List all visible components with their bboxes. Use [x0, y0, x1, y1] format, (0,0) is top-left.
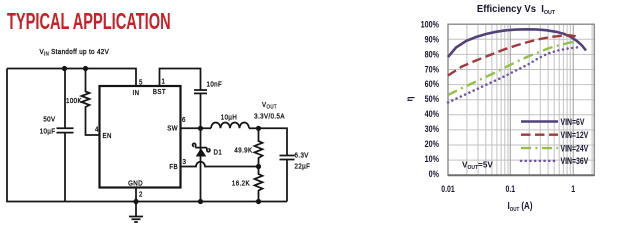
svg-text:40%: 40% [425, 109, 440, 119]
svg-text:IOUT (A): IOUT (A) [508, 200, 533, 213]
svg-text:22µF: 22µF [295, 163, 311, 171]
svg-text:1: 1 [571, 184, 575, 194]
svg-text:30%: 30% [425, 124, 440, 134]
svg-text:80%: 80% [425, 49, 440, 59]
svg-text:6.3V: 6.3V [295, 152, 309, 160]
svg-text:4: 4 [95, 126, 99, 134]
svg-text:49.9K: 49.9K [234, 147, 252, 155]
svg-text:SW: SW [167, 125, 178, 133]
svg-text:70%: 70% [425, 64, 440, 74]
svg-text:0.1: 0.1 [506, 184, 516, 194]
svg-text:90%: 90% [425, 35, 440, 45]
svg-text:20%: 20% [425, 139, 440, 149]
svg-text:VIN=36V: VIN=36V [561, 156, 589, 166]
svg-text:VIN=12V: VIN=12V [561, 130, 589, 140]
svg-text:VOUT: VOUT [262, 102, 277, 111]
svg-text:10µH: 10µH [221, 114, 237, 122]
svg-text:1: 1 [162, 78, 166, 86]
svg-text:VIN Standoff up to 42V: VIN Standoff up to 42V [40, 48, 110, 57]
svg-text:2: 2 [139, 191, 143, 199]
svg-text:D1: D1 [214, 149, 223, 157]
svg-text:3: 3 [183, 159, 187, 167]
svg-text:EN: EN [103, 133, 112, 141]
svg-text:BST: BST [153, 89, 166, 97]
svg-text:100K: 100K [66, 98, 82, 106]
svg-text:50V: 50V [43, 116, 55, 124]
svg-text:5: 5 [139, 79, 143, 87]
svg-text:0%: 0% [429, 169, 440, 179]
svg-text:η: η [404, 96, 415, 101]
svg-text:VIN=24V: VIN=24V [561, 143, 589, 153]
svg-text:50%: 50% [425, 94, 440, 104]
svg-text:10nF: 10nF [207, 81, 223, 89]
svg-text:IN: IN [133, 90, 140, 98]
svg-text:60%: 60% [425, 79, 440, 89]
svg-text:FB: FB [169, 164, 178, 172]
svg-text:GND: GND [128, 180, 143, 188]
svg-text:100%: 100% [421, 20, 440, 30]
svg-text:Efficiency Vs IOUT: Efficiency Vs IOUT [477, 4, 556, 16]
svg-text:10µF: 10µF [40, 128, 56, 136]
svg-text:3.3V/0.5A: 3.3V/0.5A [254, 113, 285, 121]
svg-text:VIN=6V: VIN=6V [561, 117, 585, 127]
svg-text:16.2K: 16.2K [232, 180, 250, 188]
svg-text:10%: 10% [425, 154, 440, 164]
svg-text:6: 6 [182, 117, 186, 125]
svg-text:0.01: 0.01 [441, 184, 455, 194]
svg-text:VOUT=5V: VOUT=5V [462, 161, 493, 172]
